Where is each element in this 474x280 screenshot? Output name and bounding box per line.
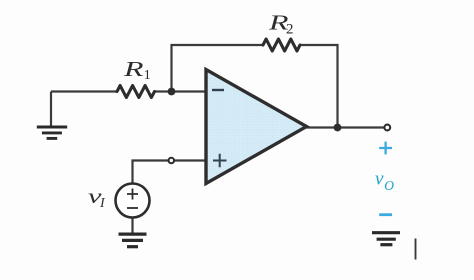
svg-text:O: O: [384, 178, 394, 193]
svg-text:I: I: [99, 196, 106, 211]
svg-text:1: 1: [144, 68, 151, 83]
svg-text:2: 2: [286, 22, 294, 38]
svg-text:R: R: [122, 57, 143, 81]
svg-text:v: v: [375, 169, 384, 190]
